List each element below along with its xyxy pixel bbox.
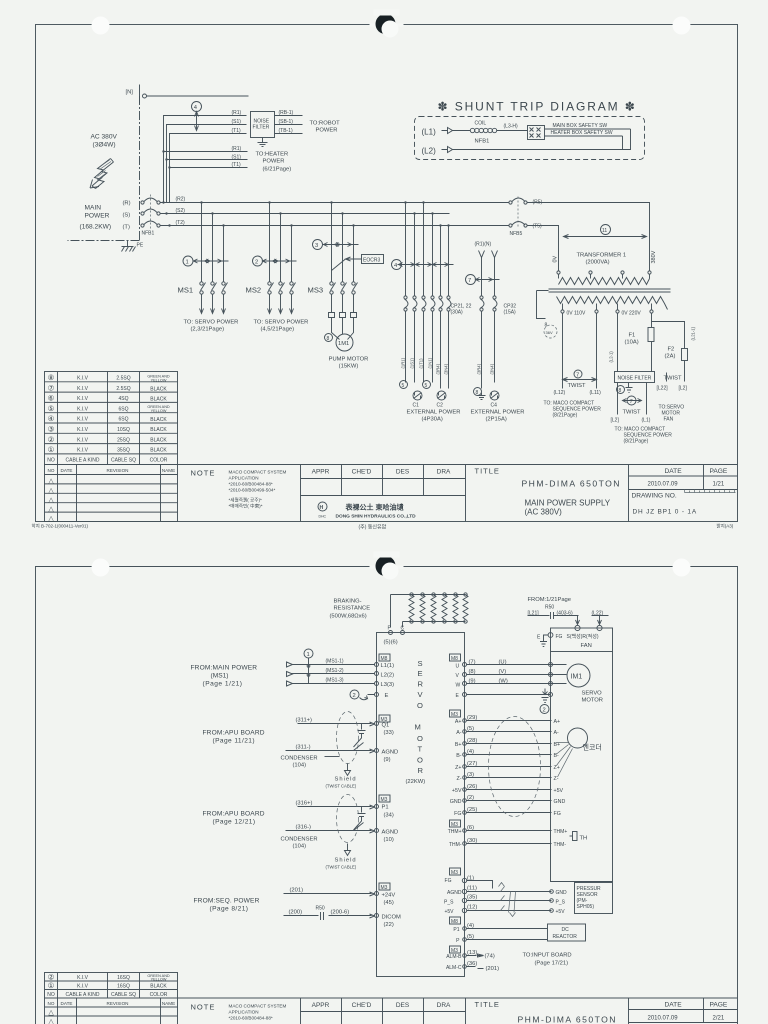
svg-text:[L22]: [L22]: [657, 386, 669, 392]
svg-text:B+: B+: [554, 742, 561, 748]
svg-text:POWER: POWER: [85, 213, 110, 220]
MS2 drop wires: [270, 203, 292, 282]
svg-text:O: O: [417, 701, 423, 710]
svg-text:M8: M8: [381, 656, 388, 662]
svg-text:(9): (9): [384, 757, 391, 763]
svg-text:K.I.V: K.I.V: [77, 427, 89, 433]
rotated labels 3R4: [477, 363, 495, 374]
svg-text:NAME: NAME: [162, 1001, 175, 1006]
plug C2: [437, 391, 446, 400]
node N tick: [139, 85, 141, 104]
svg-text:R50: R50: [316, 906, 325, 912]
svg-text:CHE'D: CHE'D: [352, 1002, 372, 1009]
svg-text:②: ②: [48, 435, 55, 444]
svg-text:(5)(6): (5)(6): [384, 640, 398, 646]
svg-text:P1: P1: [453, 927, 459, 933]
pin C top: [401, 631, 405, 635]
svg-text:△: △: [48, 516, 54, 523]
wire N vertical down to PE: [68, 96, 140, 241]
svg-text:(311-): (311-): [296, 745, 311, 751]
wire feeder T1 up: [170, 134, 247, 203]
lightning bolt symbol: [90, 159, 114, 189]
pins ps left: [462, 878, 466, 912]
svg-text:Z-: Z-: [554, 776, 559, 782]
svg-text:①: ①: [48, 981, 55, 990]
svg-text:CHE'D: CHE'D: [352, 469, 372, 476]
wire L2 run: [453, 129, 631, 150]
capacitor L21: [544, 612, 555, 623]
svg-text:0V: 0V: [553, 255, 559, 262]
svg-text:MACO COMPACT SYSTEM: MACO COMPACT SYSTEM: [229, 470, 287, 475]
labels THM left: [448, 829, 462, 848]
svg-text:1/21: 1/21: [713, 482, 725, 488]
svg-text:2.5SQ: 2.5SQ: [116, 386, 130, 392]
svg-text:DRA: DRA: [437, 469, 451, 476]
svg-text:E: E: [418, 669, 423, 678]
wire feeder R1 up: [164, 116, 247, 203]
svg-text:(Page 17/21): (Page 17/21): [535, 961, 569, 967]
svg-text:380V: 380V: [651, 250, 657, 263]
svg-text:TWIST: TWIST: [568, 383, 586, 389]
svg-text:7: 7: [576, 373, 579, 379]
wire sw to right bottom: [545, 135, 623, 137]
svg-text:FILTER: FILTER: [253, 125, 270, 131]
punch hole left p2: [92, 559, 110, 577]
svg-text:(T1): (T1): [232, 162, 242, 168]
svg-text:BLACK: BLACK: [150, 417, 167, 423]
wire 311+: [298, 722, 375, 726]
svg-text:BLACK: BLACK: [150, 427, 167, 433]
svg-text:③: ③: [48, 425, 55, 434]
date page cells: [629, 465, 738, 522]
svg-text:ALM-C: ALM-C: [446, 965, 462, 971]
svg-text:(TWIST CABLE): (TWIST CABLE): [326, 865, 357, 870]
svg-text:THM-: THM-: [449, 842, 462, 848]
svg-text:(L3-H): (L3-H): [504, 124, 519, 130]
svg-text:(R1): (R1): [232, 146, 242, 152]
svg-text:APPR: APPR: [312, 469, 330, 476]
svg-text:3: 3: [315, 243, 318, 249]
svg-text:[N]: [N]: [126, 90, 134, 96]
wire F2 branch: [652, 322, 685, 342]
svg-text:AC 380V: AC 380V: [91, 134, 118, 141]
circle 8 nf: [617, 386, 625, 394]
svg-text:PAGE: PAGE: [710, 1002, 728, 1009]
svg-text:K.I.V: K.I.V: [77, 975, 89, 981]
tag M3 alm: [450, 946, 461, 954]
revision table page2: [45, 998, 178, 1024]
svg-text:36V: 36V: [546, 330, 553, 335]
tag M3 P1: [379, 795, 390, 803]
encoder wires: [467, 721, 552, 813]
wire heater T1: [170, 167, 248, 169]
svg-text:NFB5: NFB5: [510, 231, 523, 237]
PAGE2: [36, 552, 738, 1024]
svg-text:(36): (36): [467, 961, 477, 967]
pins U V W E: [463, 663, 467, 697]
svg-text:THM+: THM+: [448, 829, 462, 835]
breaker NFB1 pole T: [141, 221, 160, 227]
wires dc: [467, 929, 548, 940]
svg-text:(8/21Page): (8/21Page): [553, 413, 578, 419]
svg-text:COLOR: COLOR: [150, 458, 168, 464]
svg-text:H: H: [320, 505, 324, 511]
svg-text:FG: FG: [454, 811, 461, 817]
tag M3 thm: [450, 820, 461, 828]
junction line circle1: [307, 658, 310, 684]
svg-text:GND: GND: [450, 799, 462, 805]
svg-text:K.I.V: K.I.V: [77, 396, 89, 402]
svg-text:M8: M8: [451, 919, 458, 925]
svg-text:(주) 동신유압: (주) 동신유압: [359, 524, 387, 531]
circle 11: [601, 225, 611, 235]
node N circle: [143, 94, 147, 98]
rotated labels 1R1: [401, 357, 449, 374]
svg-text:TO:ROBOT: TO:ROBOT: [310, 121, 341, 127]
svg-text:2010.07.09: 2010.07.09: [648, 1016, 679, 1022]
svg-text:M3: M3: [451, 822, 458, 828]
arrow line MS1: [193, 259, 229, 263]
binder mark top center: [370, 24, 404, 27]
svg-text:TWIST: TWIST: [664, 376, 682, 382]
svg-text:PUMP MOTOR: PUMP MOTOR: [329, 357, 369, 363]
ground PE: [122, 241, 136, 252]
title block divider note: [178, 465, 738, 522]
svg-text:DRA: DRA: [437, 1002, 451, 1009]
tall motor box right: [551, 652, 613, 882]
wire resistor to P: [391, 595, 403, 628]
wires ps: [467, 892, 552, 911]
svg-text:DATE: DATE: [665, 1002, 683, 1009]
revision table2 text: [48, 1001, 176, 1024]
tag M8 right top: [450, 654, 461, 662]
svg-text:RESISTANCE: RESISTANCE: [334, 606, 371, 612]
tag M3 ps: [450, 868, 461, 876]
contactor MS3: [330, 282, 358, 294]
safety switch box: [528, 126, 545, 140]
svg-text:THM+: THM+: [554, 829, 568, 835]
svg-text:(200-6): (200-6): [331, 910, 350, 916]
svg-text:△: △: [48, 506, 54, 513]
junction circles UVW: [549, 663, 553, 697]
svg-text:(T5): (T5): [533, 224, 543, 230]
svg-text:△: △: [48, 497, 54, 504]
svg-text:DC: DC: [562, 927, 570, 933]
breaker R5T5 link: [517, 197, 519, 229]
shield ellipse 316: [337, 795, 359, 843]
svg-text:FROM:APU BOARD: FROM:APU BOARD: [203, 811, 265, 818]
revision table page1: [45, 465, 178, 522]
diag to AGND 316: [354, 823, 364, 831]
svg-text:(AC 380V): (AC 380V): [525, 508, 563, 517]
condenser pointer a: [325, 756, 340, 758]
alm arrow: [467, 954, 484, 957]
circle 2 servo: [540, 705, 549, 714]
circle 4 top: [192, 102, 202, 112]
svg-text:CABLE SQ: CABLE SQ: [111, 458, 136, 464]
svg-text:(R): (R): [123, 201, 131, 207]
breaker CP23: [439, 296, 451, 311]
noise filter box 2: [615, 372, 655, 383]
svg-text:NFB1: NFB1: [475, 139, 490, 145]
wire sw to right top: [545, 128, 631, 130]
arrow below circle 4: [195, 112, 199, 131]
svg-text:TO:INPUT BOARD: TO:INPUT BOARD: [523, 953, 572, 959]
svg-text:M: M: [415, 723, 421, 732]
svg-text:(RB-1): (RB-1): [279, 110, 294, 116]
svg-text:35SQ: 35SQ: [117, 448, 130, 454]
encoder labels right: [554, 719, 566, 817]
svg-text:M3: M3: [451, 712, 458, 718]
wire 201: [284, 892, 375, 896]
svg-text:M3: M3: [381, 885, 388, 891]
svg-text:POWER: POWER: [263, 159, 285, 165]
motor IM1 servo: [567, 664, 590, 687]
svg-text:4SQ: 4SQ: [118, 396, 128, 402]
EOCR3 box: [362, 255, 384, 264]
svg-text:K.I.V: K.I.V: [77, 437, 89, 443]
ground nf: [626, 383, 633, 393]
svg-text:YELLOW: YELLOW: [151, 409, 167, 413]
ext2 drop wires: [482, 258, 495, 296]
pin Q1: [375, 722, 379, 726]
primary tap circles: [557, 271, 651, 279]
svg-text:TITLE: TITLE: [475, 1000, 500, 1009]
svg-text:MS2: MS2: [246, 286, 262, 295]
svg-text:PHM-DIMA 650TON: PHM-DIMA 650TON: [518, 1015, 617, 1024]
svg-text:6SQ: 6SQ: [118, 406, 128, 412]
wire T5 to transformer: [527, 226, 559, 271]
svg-text:NFB1: NFB1: [142, 231, 155, 237]
svg-text:EXTERNAL POWER: EXTERNAL POWER: [471, 410, 525, 416]
secondary winding: [557, 297, 668, 310]
svg-text:(6): (6): [467, 825, 474, 831]
svg-text:(T2): (T2): [176, 220, 186, 226]
encoder circle: [568, 728, 588, 748]
tag M8 left top: [379, 654, 390, 662]
svg-text:B+: B+: [455, 742, 462, 748]
svg-text:(MS1-3): (MS1-3): [326, 678, 344, 684]
fan pins: [548, 625, 602, 637]
pin AGND 9: [375, 749, 379, 753]
secondary taps: [561, 304, 653, 314]
circle 2 E: [350, 690, 359, 699]
svg-text:YELLOW: YELLOW: [151, 978, 167, 982]
diag to AGND: [354, 743, 364, 751]
svg-text:(4P30A): (4P30A): [422, 417, 443, 423]
svg-text:BLACK: BLACK: [150, 438, 167, 444]
resistor terminals: [410, 593, 467, 623]
svg-text:(10A): (10A): [625, 340, 639, 346]
shield arrow 316: [345, 844, 351, 856]
svg-text:REVISION: REVISION: [107, 1001, 129, 1006]
label L2-1 rotated: [609, 351, 614, 363]
circle 7 ext: [466, 275, 476, 285]
svg-text:YELLOW: YELLOW: [151, 379, 167, 383]
wires MS1 in: [292, 665, 375, 684]
encoder pin numbers: [467, 715, 477, 813]
label L21-1 rotated: [691, 326, 696, 340]
revision table text: [48, 468, 176, 523]
fuse F1: [648, 326, 654, 361]
svg-text:(L1): (L1): [422, 128, 437, 137]
svg-text:2: 2: [353, 693, 356, 699]
twist3 wires: [667, 373, 685, 382]
TH sensor: [570, 832, 578, 841]
svg-text:(3Ø4W): (3Ø4W): [93, 142, 116, 149]
svg-text:0V 220V: 0V 220V: [622, 311, 642, 317]
svg-text:⑧: ⑧: [48, 373, 55, 382]
svg-text:REVISION: REVISION: [107, 468, 129, 473]
svg-text:K.I.V: K.I.V: [77, 984, 89, 990]
svg-text:COLOR: COLOR: [150, 992, 168, 998]
svg-text:BLACK: BLACK: [150, 984, 167, 990]
wire RB-1 out: [275, 115, 303, 117]
wire 316-: [286, 829, 375, 833]
approval header text: [312, 469, 451, 476]
wire bus S: [160, 213, 450, 215]
svg-text:L2(2): L2(2): [381, 673, 395, 679]
svg-text:0V 110V: 0V 110V: [567, 311, 586, 317]
svg-text:A+: A+: [554, 719, 561, 725]
approval header p2: [312, 1002, 451, 1009]
svg-text:(3N4): (3N4): [444, 363, 449, 374]
breaker CP32: [480, 296, 497, 311]
svg-text:(5): (5): [467, 726, 474, 732]
labels U V W E: [456, 664, 461, 700]
svg-text:(R1): (R1): [232, 110, 242, 116]
pressure sensor box: [575, 883, 613, 914]
svg-text:CABLE SQ: CABLE SQ: [111, 992, 136, 998]
wire 220V down to F1: [618, 314, 652, 372]
svg-text:BLACK: BLACK: [150, 397, 167, 403]
svg-text:B-: B-: [456, 753, 462, 759]
svg-text:IM1: IM1: [571, 674, 583, 681]
svg-text:(500W,68Ωx6): (500W,68Ωx6): [330, 614, 367, 620]
svg-text:F1: F1: [629, 333, 636, 339]
punch hole left: [92, 17, 110, 35]
svg-text:F2: F2: [668, 347, 675, 353]
braking resistor rails: [391, 595, 466, 622]
svg-text:COIL: COIL: [475, 121, 487, 127]
svg-text:(4): (4): [467, 923, 474, 929]
svg-text:+5V: +5V: [556, 909, 566, 915]
encoder pins left: [463, 719, 467, 815]
svg-text:W: W: [456, 683, 461, 689]
svg-text:(Page 11/21): (Page 11/21): [213, 738, 255, 745]
label 0V rotated: [553, 255, 559, 262]
svg-text:APPLICATION: APPLICATION: [229, 476, 259, 481]
svg-text:HEATER BOX SAFETY SW: HEATER BOX SAFETY SW: [551, 130, 613, 136]
svg-text:(2): (2): [467, 795, 474, 801]
svg-text:(T1): (T1): [232, 128, 242, 134]
svg-text:(3R4): (3R4): [477, 363, 482, 374]
svg-text:P_S: P_S: [444, 900, 454, 906]
svg-text:MOTOR: MOTOR: [582, 698, 603, 704]
svg-text:BRAKING-: BRAKING-: [334, 599, 362, 605]
svg-text:2/21: 2/21: [713, 1016, 725, 1022]
svg-text:25SQ: 25SQ: [117, 437, 130, 443]
label 380V rotated: [651, 250, 657, 263]
plug C1: [413, 391, 422, 400]
svg-text:2010.07.09: 2010.07.09: [648, 482, 679, 488]
svg-text:[L2]: [L2]: [679, 386, 688, 392]
core lines: [549, 288, 671, 290]
svg-text:L1(1): L1(1): [381, 663, 395, 669]
svg-text:DRAWING NO.: DRAWING NO.: [632, 493, 677, 500]
svg-text:5: 5: [425, 383, 428, 389]
svg-text:(S): (S): [123, 213, 131, 219]
border frame page 2: [36, 567, 738, 1024]
svg-text:Q1: Q1: [382, 723, 390, 729]
circle 5 a: [400, 381, 408, 389]
svg-text:2.5SQ: 2.5SQ: [116, 376, 130, 382]
svg-text:(316-): (316-): [296, 825, 312, 831]
svg-text:(35): (35): [467, 894, 477, 900]
contactor MS2: [268, 282, 296, 294]
wire R5 to transformer: [527, 203, 650, 271]
svg-text:TWIST: TWIST: [623, 410, 641, 416]
wire 200 R50: [284, 912, 375, 920]
svg-text:(TB-1): (TB-1): [279, 128, 294, 134]
cable table text: [47, 373, 170, 464]
svg-text:NO: NO: [47, 992, 55, 998]
shield ellipse 311: [337, 712, 359, 764]
wire 311-: [286, 749, 375, 753]
circle 5 b: [423, 381, 431, 389]
wire from N to right: [147, 95, 249, 97]
wire SB-1 out: [275, 124, 303, 126]
breaker CP21: [404, 296, 417, 311]
svg-text:GND: GND: [554, 799, 566, 805]
svg-text:(TWIST CABLE): (TWIST CABLE): [326, 784, 357, 789]
svg-text:NO: NO: [48, 468, 55, 473]
tag M3 encoder: [450, 710, 461, 718]
label underlines: [528, 615, 609, 617]
svg-text:(33): (33): [384, 730, 394, 736]
labels P1 P: [453, 927, 460, 944]
arrow line ext: [476, 278, 500, 282]
svg-text:AGND: AGND: [447, 890, 462, 896]
vertical SERVO MOTOR letters: [415, 659, 424, 775]
wire bus T: [160, 225, 509, 227]
svg-text:DONG SHIN HYDRAULICS CO.,LTD: DONG SHIN HYDRAULICS CO.,LTD: [336, 514, 417, 520]
svg-text:(45): (45): [384, 900, 394, 906]
svg-text:PE: PE: [137, 243, 144, 249]
svg-text:PHM-DIMA 650TON: PHM-DIMA 650TON: [522, 479, 621, 489]
svg-text:⑤: ⑤: [48, 404, 55, 413]
svg-text:FG: FG: [556, 634, 563, 640]
circle 1 p2: [304, 649, 313, 658]
wire feeder S1 up: [167, 125, 247, 203]
svg-text:MACO COMPACT SYSTEM: MACO COMPACT SYSTEM: [229, 1004, 287, 1009]
svg-text:(2P15A): (2P15A): [486, 417, 507, 423]
svg-text:*2010-60/B00499-504*: *2010-60/B00499-504*: [229, 488, 276, 493]
cable table2 text: [47, 973, 170, 999]
nf2 out wires: [618, 383, 647, 415]
svg-text:5: 5: [402, 383, 405, 389]
pin +24V: [375, 892, 379, 896]
motor 1M1: [336, 334, 353, 351]
svg-text:M3: M3: [451, 870, 458, 876]
svg-text:16SQ: 16SQ: [117, 984, 130, 990]
svg-text:(L2): (L2): [422, 147, 437, 156]
svg-text:△: △: [48, 1019, 54, 1024]
wires THM: [467, 831, 552, 844]
ps cable marks: [499, 883, 516, 917]
wire TB-1 out: [275, 133, 303, 135]
svg-text:DATE: DATE: [61, 468, 73, 473]
